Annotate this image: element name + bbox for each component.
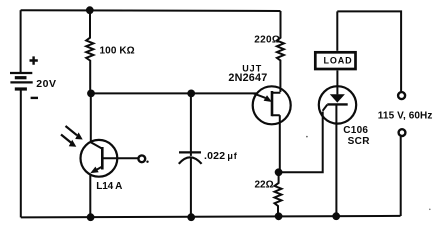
svg-text:20V: 20V [36,78,56,90]
svg-text:220Ω: 220Ω [254,34,280,45]
svg-text:.022: .022 [204,150,225,162]
svg-text:22Ω: 22Ω [255,180,274,191]
svg-text:L14 A: L14 A [96,181,122,192]
svg-text:SCR: SCR [348,136,371,147]
svg-text:100 KΩ: 100 KΩ [100,46,135,57]
svg-text:115 V, 60Hz: 115 V, 60Hz [378,110,433,121]
svg-text:μf: μf [227,151,237,161]
svg-text:2N2647: 2N2647 [228,72,267,84]
svg-text:C106: C106 [343,125,368,136]
svg-text:LOAD: LOAD [323,55,352,65]
